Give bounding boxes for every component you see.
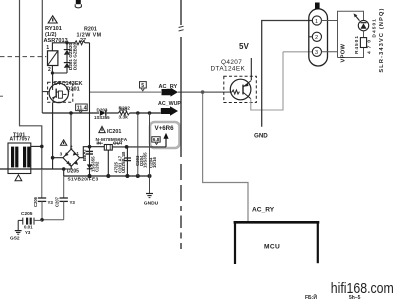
svg-text:0.01: 0.01 <box>24 225 33 230</box>
wire Q4207 collector to pin3 (gray) <box>251 52 283 110</box>
svg-text:AC_RY: AC_RY <box>252 207 275 214</box>
transistor Q201 DTC143EK <box>48 81 83 103</box>
svg-text:GS2: GS2 <box>10 235 20 241</box>
wire long bottom rail <box>0 168 64 170</box>
wire relay coil top to R201 <box>52 43 75 51</box>
svg-text:GNDU: GNDU <box>144 201 159 207</box>
wire boundary line solid top <box>180 0 182 25</box>
marker box 6.8 <box>152 137 160 145</box>
node junction (127.4,176) <box>125 174 129 178</box>
diode D201 <box>64 43 70 55</box>
node junction (63.7,168.4) <box>62 167 66 171</box>
wire AC_RY gray horizontal <box>90 91 162 93</box>
bridge D205 diamond <box>63 149 80 166</box>
svg-text:Y3: Y3 <box>25 230 31 235</box>
svg-text:5: 5 <box>141 83 144 89</box>
wire boundary line dashed <box>179 26 184 27</box>
svg-text:VPOW: VPOW <box>341 43 347 62</box>
resistor R202 zigzag <box>119 111 130 115</box>
svg-text:1: 1 <box>315 19 318 25</box>
wire AC_WUP horizontal (dark) <box>42 112 99 114</box>
node junction (52.6,157.7) <box>51 156 55 160</box>
svg-text:IC201: IC201 <box>107 129 121 135</box>
svg-text:10/16: 10/16 <box>152 156 157 168</box>
svg-text:SLR-343VC (NPQ): SLR-343VC (NPQ) <box>379 8 385 72</box>
svg-text:470: 470 <box>367 40 373 54</box>
svg-text:1SS355: 1SS355 <box>94 115 110 120</box>
wire 5V stub <box>250 58 252 80</box>
capacitor C201 plates <box>124 157 131 159</box>
svg-text:GND: GND <box>254 132 268 139</box>
node junction (108.3,176) <box>106 174 110 178</box>
node junction (89.5,176) <box>88 174 92 178</box>
resistor R4501 box <box>360 31 366 48</box>
svg-text:S1VB20/FE3: S1VB20/FE3 <box>68 177 99 183</box>
MCU box <box>234 221 320 264</box>
node junction (137.8,113) <box>136 111 140 115</box>
wire relay mechanical dashed link <box>0 56 46 58</box>
arrow up inside callout <box>165 138 167 147</box>
connector plug P top <box>75 0 81 8</box>
svg-text:2: 2 <box>48 67 51 73</box>
wire Y-cap bottoms join <box>42 219 64 221</box>
wire pin3 right stub <box>321 51 337 53</box>
svg-text:1SS355: 1SS355 <box>143 152 148 168</box>
node junction (126.6,146.9) <box>125 145 129 149</box>
wire GNDU down <box>149 113 151 194</box>
wire C203 down <box>137 113 139 176</box>
marker box 11.4 <box>76 104 88 113</box>
wire IC out to V+6R6 <box>112 146 166 148</box>
wire pin3 left (gray) <box>283 51 312 53</box>
svg-text:DTA124EK: DTA124EK <box>211 66 246 73</box>
svg-text:4: 4 <box>69 162 72 167</box>
node junction (89.5,146.7) <box>88 145 92 149</box>
svg-text:UDZ5B.1B: UDZ5B.1B <box>121 152 126 173</box>
diode D202 <box>64 55 70 73</box>
callout box V+6R6 <box>150 122 180 148</box>
diode D-small on vertical <box>87 164 92 168</box>
svg-text:1: 1 <box>76 151 79 156</box>
transformer T101 <box>8 143 31 174</box>
node junction (71,113) <box>69 111 73 115</box>
warning triangle (bridge) <box>60 140 66 145</box>
svg-text:Y3: Y3 <box>48 200 54 205</box>
stray left edge tick <box>0 96 3 97</box>
relay RY101 coil box <box>46 45 58 73</box>
svg-text:ATT7057: ATT7057 <box>10 136 31 142</box>
svg-text:3.3k: 3.3k <box>119 115 129 121</box>
ground GS2 <box>10 220 22 241</box>
node junction (202.6,92.1) <box>201 90 205 94</box>
svg-text:C202: C202 <box>95 161 100 172</box>
wire R201 right to vertical <box>85 42 90 44</box>
svg-text:3: 3 <box>315 50 318 56</box>
svg-text:BEAT: BEAT <box>82 149 87 161</box>
svg-text:D203: D203 <box>97 108 108 113</box>
svg-text:C205: C205 <box>21 211 33 217</box>
svg-text:AC_WUP: AC_WUP <box>158 101 181 107</box>
wire emitter node to bridge left <box>53 157 64 159</box>
node junction (137.8,176) <box>136 174 140 178</box>
capacitor C207 <box>55 176 76 220</box>
node junction (149.5,113) <box>148 111 152 115</box>
svg-text:820: 820 <box>120 107 128 112</box>
warning triangle (IC201) <box>99 126 105 132</box>
svg-text:MCU: MCU <box>264 243 280 250</box>
wire pin1 right stub <box>321 20 337 22</box>
wire AC_RY to Q4207 and MCU (gray) <box>178 91 232 93</box>
ground triangle below transformer <box>15 175 22 181</box>
wire bridge bottom <box>64 166 71 176</box>
svg-text:V+6R6: V+6R6 <box>155 125 175 132</box>
wire C201 down <box>126 147 128 176</box>
svg-text:D202 GZB20: D202 GZB20 <box>73 42 78 70</box>
wire bridge right to top rail <box>80 147 105 158</box>
wire AC line left <box>20 0 42 169</box>
capacitor C205 <box>18 218 42 235</box>
node junction (41.3,146.2) <box>40 145 44 149</box>
warning triangle (relay) <box>48 16 57 23</box>
svg-text:6.8: 6.8 <box>153 137 160 143</box>
wire Q201 emitter down <box>52 103 54 169</box>
svg-text:2: 2 <box>315 35 318 41</box>
svg-text:D4501: D4501 <box>372 19 378 38</box>
capacitor C206 <box>33 169 53 220</box>
capacitor C202 plates on vertical <box>86 150 93 152</box>
svg-text:1: 1 <box>46 45 49 51</box>
wire relay bottom joining bar <box>52 66 67 74</box>
node junction (42,219.4) <box>40 218 44 222</box>
svg-text:R4501: R4501 <box>354 36 360 54</box>
svg-text:3: 3 <box>60 152 63 157</box>
transistor Q4207 DTA124EK <box>224 76 256 102</box>
pin 2 <box>312 32 321 41</box>
wire pin1 to GND (dark) <box>262 21 312 127</box>
wire collector stub to Q201 <box>52 73 54 84</box>
wire ground bus <box>64 175 150 177</box>
LED D4501 <box>354 13 369 30</box>
diode D203 <box>94 108 110 120</box>
svg-text:5h–5: 5h–5 <box>349 295 361 300</box>
IC201 box <box>104 145 112 151</box>
wire R201 branch vertical <box>89 43 91 176</box>
node junction (52.4,73) <box>51 71 54 74</box>
wire IC gnd down <box>107 150 109 176</box>
svg-text:(1/2): (1/2) <box>45 32 57 38</box>
wire AC line right <box>41 0 43 113</box>
wire bridge top feed <box>70 113 72 150</box>
connector body <box>309 9 328 66</box>
svg-text:5V: 5V <box>239 42 249 51</box>
svg-text:C207: C207 <box>55 196 60 207</box>
svg-text:2: 2 <box>70 144 73 149</box>
node junction (149.5,176) <box>148 174 152 178</box>
marker box 5 <box>140 82 147 91</box>
wire VPOW loop <box>338 11 364 57</box>
pin 3 <box>312 47 321 56</box>
node junction at (67,42.8) <box>65 41 68 44</box>
wire transformer secondary top <box>31 145 42 147</box>
svg-text:FБ:Й: FБ:Й <box>305 293 317 300</box>
svg-text:Y3: Y3 <box>70 200 76 205</box>
wire Q201 base left <box>42 91 48 93</box>
ground GNDU <box>144 194 159 207</box>
svg-text:hifi168.com: hifi168.com <box>331 280 394 297</box>
resistor R201 zigzag <box>75 41 85 45</box>
svg-text:R201: R201 <box>84 27 97 33</box>
pin 1 <box>312 16 321 25</box>
